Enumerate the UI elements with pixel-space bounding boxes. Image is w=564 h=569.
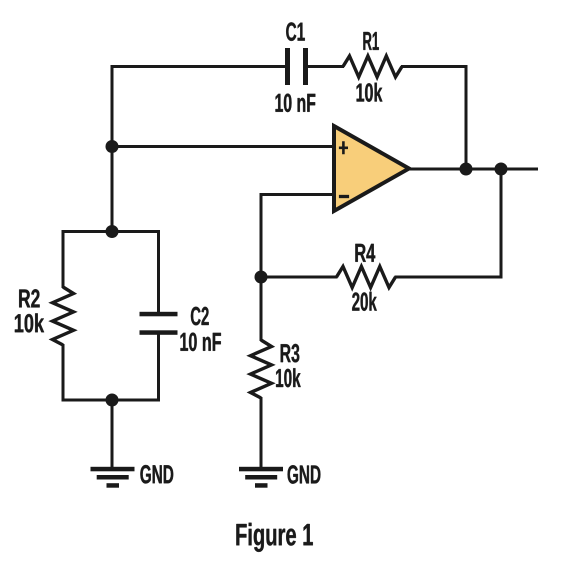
node: junction at top of R2/C2 tank — [106, 225, 119, 238]
resistor R1 — [343, 56, 402, 77]
wire: node B to R4 — [261, 276, 338, 279]
label R1 value 10k — [357, 83, 383, 102]
wire: R2 top lead — [62, 230, 65, 288]
wire: noninverting input from node A to op-amp — [112, 145, 335, 148]
label R3 value 10k — [276, 368, 301, 387]
wire: C1 to R1 — [308, 65, 345, 68]
wire: tank top rail — [63, 230, 159, 233]
wire: R3 to right ground — [260, 397, 263, 469]
label C1 — [286, 22, 305, 41]
capacitor C1 — [285, 48, 308, 85]
wire: R4 to output node (right leg) — [395, 169, 502, 277]
node B: inverting-side junction — [255, 271, 268, 284]
wire: tank to left ground — [111, 400, 114, 469]
resistor R3 — [251, 340, 272, 398]
label C1 value 10 nF — [276, 94, 316, 113]
label R2 — [19, 289, 39, 307]
wire: top branch left segment from node A to C1 — [112, 67, 286, 232]
wire: inverting input from op-amp to node B — [261, 195, 335, 278]
label R3 — [281, 344, 300, 363]
label C2 — [191, 307, 209, 326]
label GND (right) — [288, 465, 321, 484]
node A: junction of left vertical with noninverting input — [106, 140, 119, 153]
label GND (left) — [140, 465, 173, 484]
ground (right) — [239, 467, 283, 488]
label R4 value 20k — [352, 292, 377, 311]
resistor R2 — [53, 287, 74, 345]
capacitor C2 — [140, 312, 178, 335]
wire: op-amp output — [408, 168, 538, 171]
node: junction at bottom of R2/C2 tank — [106, 394, 119, 407]
wire: R1 to output node (top right corner) — [401, 67, 466, 170]
label C2 value 10 nF — [181, 333, 221, 352]
label R2 value 10k — [15, 313, 44, 332]
ground (left) — [91, 467, 135, 488]
wire: C2 bottom lead — [157, 334, 160, 402]
wire: node B to R3 — [260, 277, 263, 341]
op-amp U1 — [334, 126, 409, 211]
label R4 — [355, 244, 375, 262]
node: output junction with top branch — [460, 163, 473, 176]
caption: Figure 1 — [236, 523, 312, 552]
resistor R4 — [337, 267, 396, 288]
label R1 — [363, 32, 378, 50]
wire: C2 top lead — [157, 230, 160, 312]
node: output junction with R4 branch — [495, 163, 508, 176]
wire: tank bottom rail — [63, 399, 159, 402]
wire: R2 bottom lead — [62, 344, 65, 402]
